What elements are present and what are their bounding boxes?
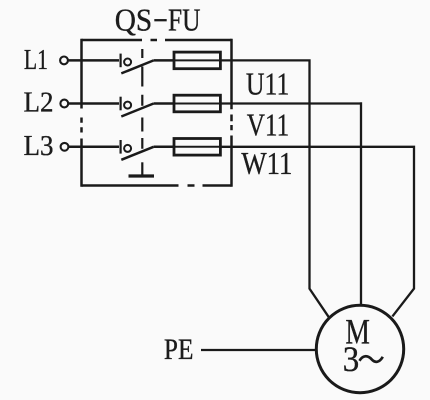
terminal L1 bbox=[60, 57, 68, 65]
svg-text:PE: PE bbox=[164, 334, 194, 366]
label L2 bbox=[24, 87, 54, 119]
label 3~ bbox=[343, 339, 383, 379]
switch QS pole 3 bbox=[121, 140, 154, 160]
label U11 bbox=[246, 66, 290, 102]
label V11 bbox=[247, 107, 290, 143]
svg-text:W11: W11 bbox=[241, 145, 292, 181]
svg-text:V11: V11 bbox=[247, 107, 290, 143]
switch QS pole 1 bbox=[121, 54, 154, 74]
fuse FU2 bbox=[174, 95, 220, 112]
wire switch3 to fuse bbox=[154, 146, 174, 149]
wire W11 bbox=[220, 146, 414, 317]
svg-text:L2: L2 bbox=[24, 87, 54, 119]
wire switch1 to fuse bbox=[154, 59, 174, 62]
enclosure QS-FU left edge (dash-dot) bbox=[80, 39, 83, 187]
svg-text:L3: L3 bbox=[24, 130, 54, 162]
label PE bbox=[164, 334, 194, 366]
svg-text:FU: FU bbox=[168, 3, 201, 38]
wire L2 to switch bbox=[68, 102, 119, 105]
fuse FU1 bbox=[174, 52, 220, 69]
label QS-FU bbox=[115, 3, 201, 38]
fuse FU3 bbox=[174, 139, 220, 156]
switch QS pole 2 bbox=[121, 97, 154, 117]
enclosure QS-FU top edge (dash-dot) bbox=[82, 39, 232, 42]
svg-text:QS: QS bbox=[115, 3, 153, 38]
enclosure QS-FU right edge (dash-dot) bbox=[230, 39, 233, 187]
wire U11 bbox=[220, 59, 329, 317]
label L3 bbox=[24, 130, 54, 162]
enclosure QS-FU bottom edge (dash-dot) bbox=[82, 184, 232, 187]
terminal L2 bbox=[60, 100, 68, 108]
wire switch2 to fuse bbox=[154, 102, 174, 105]
motor M1 bbox=[316, 305, 403, 392]
switch linkage (dashed) bbox=[141, 49, 143, 149]
ground bbox=[129, 162, 155, 176]
label M bbox=[345, 312, 370, 352]
svg-text:L1: L1 bbox=[24, 44, 48, 76]
wire V11 bbox=[220, 102, 361, 305]
wire PE bbox=[201, 349, 316, 351]
terminal L3 bbox=[61, 143, 69, 151]
wire L1 to switch bbox=[68, 59, 119, 62]
svg-text:U11: U11 bbox=[246, 66, 290, 102]
svg-text:3: 3 bbox=[343, 339, 360, 379]
label L1 bbox=[24, 44, 48, 76]
wire L3 to switch bbox=[68, 146, 119, 149]
label W11 bbox=[241, 145, 292, 181]
